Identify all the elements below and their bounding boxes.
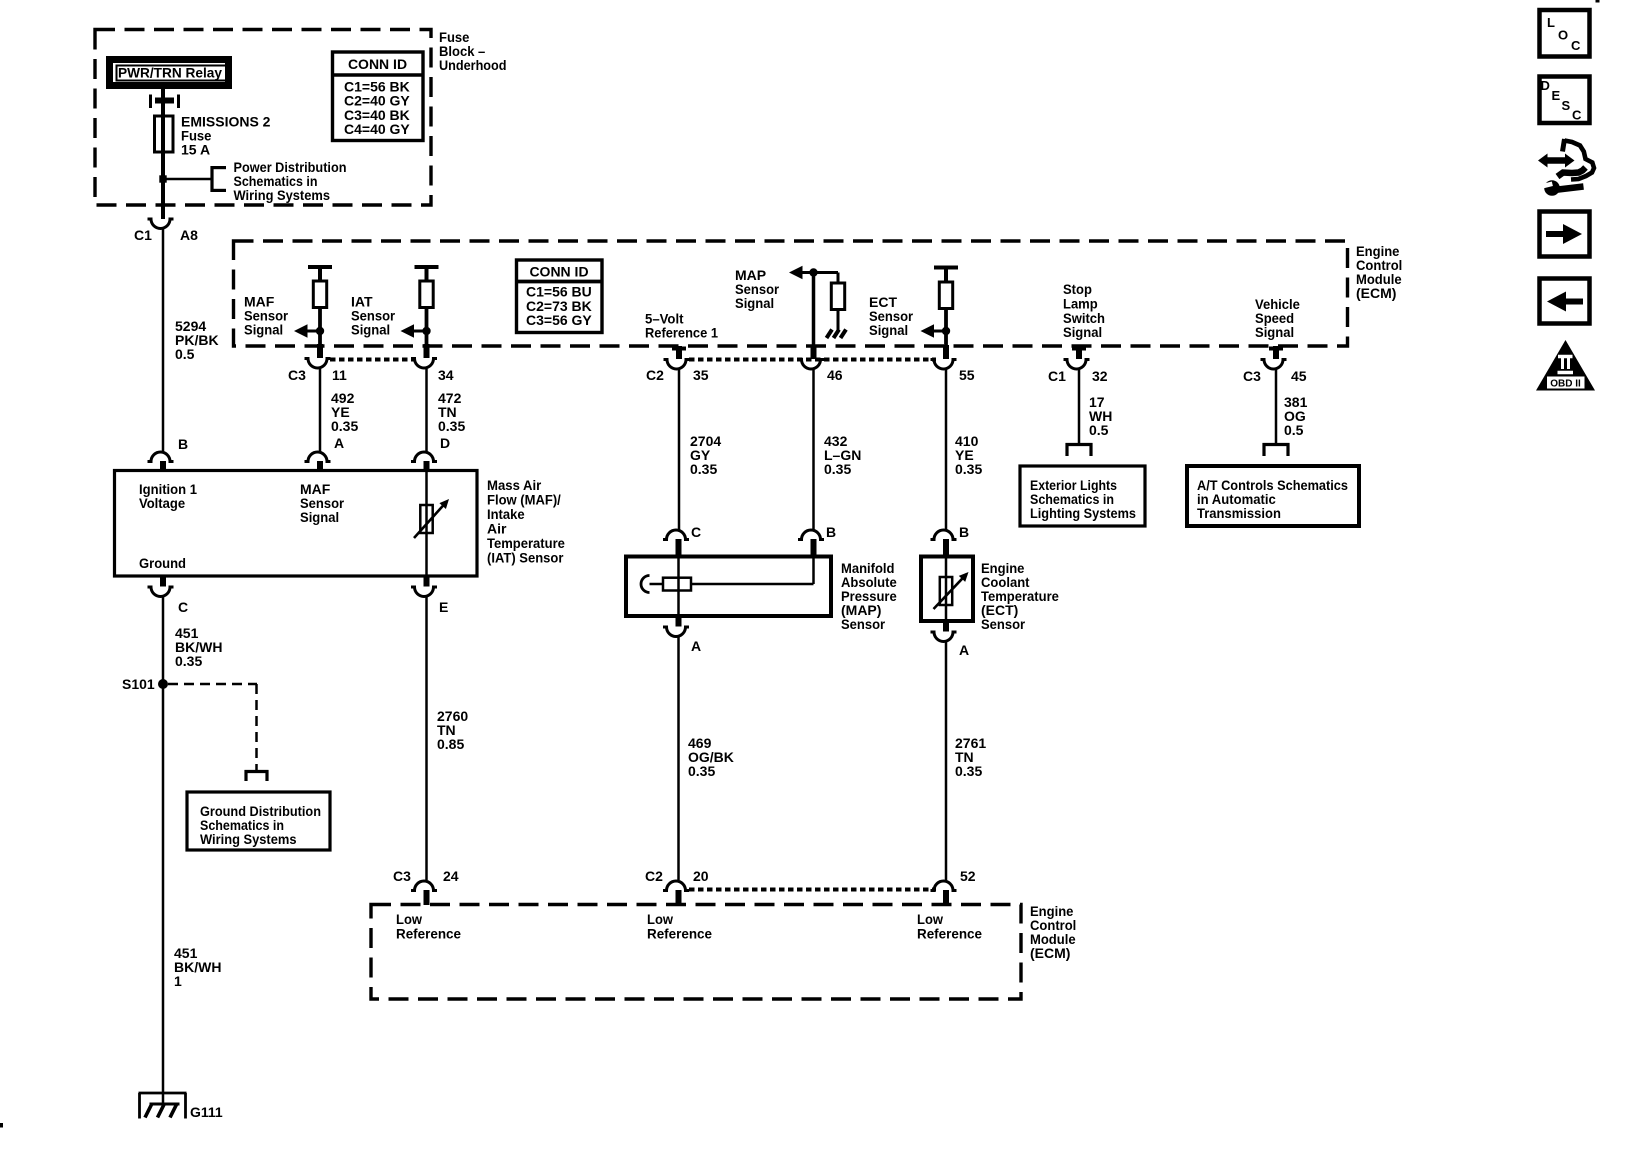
pin stub 46	[811, 345, 817, 359]
wire 17 WH 0.5	[1078, 369, 1081, 443]
svg-text:Signal: Signal	[1063, 324, 1102, 340]
svg-text:Signal: Signal	[300, 509, 339, 525]
wire	[318, 307, 322, 345]
CONN ID table fuse block	[333, 52, 424, 141]
connector C1 pin A8	[148, 219, 174, 229]
off-page bracket to exterior lights	[1066, 443, 1093, 446]
ECM top dashed box	[234, 241, 1348, 346]
svg-text:Sensor: Sensor	[981, 616, 1026, 632]
svg-text:A8: A8	[180, 227, 198, 243]
fuse F1 EMISSIONS 2 15A	[161, 116, 165, 152]
off-page bracket to A/T controls	[1263, 443, 1290, 446]
junction	[942, 327, 950, 335]
wire 451 BK/WH 0.35	[162, 596, 165, 684]
svg-text:11: 11	[332, 367, 347, 383]
MAP transducer symbol	[641, 576, 650, 593]
svg-text:1: 1	[174, 973, 182, 989]
arrow MAP sensor signal	[789, 266, 803, 279]
junction	[422, 327, 430, 335]
IAT thermistor (variable resistor)	[420, 505, 432, 533]
svg-text:0.35: 0.35	[955, 461, 982, 477]
fuse clip	[149, 95, 152, 109]
pin stub C3-11	[317, 344, 323, 358]
svg-text:Signal: Signal	[869, 322, 908, 338]
svg-text:0.35: 0.35	[175, 653, 202, 669]
connector C3 pin 34	[411, 359, 437, 369]
pin stub 55	[943, 345, 949, 359]
wire 472 TN 0.35	[425, 368, 428, 452]
svg-text:A: A	[959, 642, 969, 658]
svg-text:(IAT) Sensor: (IAT) Sensor	[487, 550, 564, 566]
svg-text:0.35: 0.35	[438, 418, 465, 434]
wire fuse down through fuse block border	[161, 152, 165, 219]
svg-text:S: S	[1562, 98, 1571, 113]
svg-text:D: D	[440, 435, 450, 451]
resistor MAP pull-up to ground	[837, 273, 840, 284]
svg-text:0.35: 0.35	[688, 763, 715, 779]
svg-text:32: 32	[1092, 368, 1108, 384]
connector C3 pin 11	[305, 359, 331, 369]
connector C2 pin 35	[664, 360, 690, 370]
A/T controls schematics box	[1187, 466, 1359, 526]
connector dashed link C2 pins 20-52	[689, 888, 936, 892]
wire 451 BK/WH 1	[162, 684, 165, 1104]
connector pin B MAP sensor	[798, 530, 824, 540]
CONN ID table ECM	[517, 260, 603, 333]
svg-text:Wiring Systems: Wiring Systems	[234, 187, 331, 203]
pin terminal vehicle speed	[1269, 347, 1283, 351]
arrow IAT sensor signal	[401, 324, 415, 337]
svg-text:B: B	[178, 436, 188, 452]
svg-text:Reference 1: Reference 1	[645, 325, 718, 341]
svg-text:OBD II: OBD II	[1550, 379, 1581, 390]
page mark top right	[1596, 0, 1599, 2]
svg-text:C2: C2	[646, 367, 664, 383]
svg-text:Reference: Reference	[396, 926, 461, 942]
connector C3 pin 24	[411, 881, 437, 891]
svg-text:C3: C3	[393, 868, 411, 884]
pin terminal stop lamp	[1072, 347, 1086, 351]
PWR/TRN Relay box	[110, 60, 229, 86]
svg-text:45: 45	[1291, 368, 1307, 384]
ECT thermistor (variable resistor)	[940, 577, 952, 605]
svg-text:A: A	[334, 435, 344, 451]
resistor ECT pull-up	[939, 282, 952, 309]
wire through MAP sensor	[677, 556, 680, 616]
wire	[425, 307, 429, 345]
svg-text:Signal: Signal	[244, 322, 283, 338]
IAT sensor signal terminal in ECM	[415, 265, 439, 269]
wire 410 YE 0.35	[945, 369, 948, 531]
ECT sensor signal terminal in ECM	[934, 266, 958, 270]
svg-text:55: 55	[959, 367, 975, 383]
svg-text:Ground: Ground	[139, 555, 186, 571]
svg-text:Lighting Systems: Lighting Systems	[1030, 505, 1136, 521]
svg-text:C4=40 GY: C4=40 GY	[344, 121, 410, 137]
svg-text:PWR/TRN Relay: PWR/TRN Relay	[118, 65, 222, 81]
svg-text:E: E	[439, 599, 448, 615]
svg-text:CONN ID: CONN ID	[529, 264, 588, 280]
ECM bottom dashed box	[371, 905, 1021, 1000]
ground in ECM	[827, 330, 833, 339]
OBD II icon	[1536, 340, 1595, 391]
connector pin D IAT sensor	[411, 452, 437, 462]
connector dashed link C3 pins 11-34	[330, 358, 416, 362]
svg-text:Signal: Signal	[735, 295, 774, 311]
connector pin E IAT low reference	[424, 576, 430, 587]
wire branch to power distribution	[163, 178, 212, 181]
MAF/IAT sensor box	[115, 471, 478, 577]
svg-text:Signal: Signal	[1255, 324, 1294, 340]
IAT wire through sensor	[425, 471, 428, 576]
wire relay to fuse	[161, 89, 165, 116]
svg-text:0.35: 0.35	[955, 763, 982, 779]
wire 2760 TN 0.85	[425, 596, 428, 880]
LOC icon box	[1540, 10, 1590, 57]
connector C3 pin 45	[1261, 360, 1287, 370]
wire 469 OG/BK 0.35	[677, 636, 680, 880]
svg-text:Underhood: Underhood	[439, 57, 507, 73]
wire MAP signal vertical	[812, 273, 816, 347]
connector C2 pin 20	[663, 881, 689, 891]
DESC icon box	[1540, 77, 1590, 124]
svg-text:CONN ID: CONN ID	[348, 56, 407, 72]
wire through ECT sensor	[945, 556, 948, 621]
connector pin 52	[931, 881, 957, 891]
svg-text:0.85: 0.85	[437, 736, 464, 752]
svg-text:0.5: 0.5	[1284, 422, 1304, 438]
page mark bottom left	[0, 1124, 3, 1128]
svg-text:C2: C2	[645, 868, 663, 884]
resistor MAF pull-up	[313, 281, 326, 308]
svg-text:L: L	[1547, 15, 1555, 30]
svg-text:C: C	[178, 599, 188, 615]
svg-text:24: 24	[443, 868, 459, 884]
svg-text:C3: C3	[288, 367, 306, 383]
svg-text:0.5: 0.5	[1089, 422, 1109, 438]
connector pin 55	[931, 360, 957, 370]
svg-text:52: 52	[960, 868, 976, 884]
wire 381 OG 0.5	[1275, 369, 1278, 443]
svg-text:Signal: Signal	[351, 322, 390, 338]
connector pin C MAP sensor	[663, 530, 689, 540]
wire 5294 PK/BK 0.5	[162, 228, 165, 451]
svg-text:Reference: Reference	[647, 926, 712, 942]
wire 2704 GY 0.35	[678, 369, 681, 531]
fuse block underhood dashed box	[95, 30, 431, 206]
ground G111	[139, 1092, 187, 1095]
svg-text:34: 34	[438, 367, 454, 383]
svg-text:46: 46	[827, 367, 843, 383]
connector pin B MAF sensor	[148, 452, 174, 462]
ECT sensor box	[921, 557, 973, 622]
splice S101	[158, 679, 168, 689]
svg-text:C: C	[1571, 38, 1581, 53]
svg-text:20: 20	[693, 868, 709, 884]
forward arrow icon box	[1540, 212, 1590, 257]
svg-text:C1: C1	[1048, 368, 1066, 384]
connector pin A MAF sensor	[305, 452, 331, 462]
svg-text:(ECM): (ECM)	[1030, 945, 1070, 961]
connector pin B ECT sensor	[931, 530, 957, 540]
arrow ECT sensor signal	[921, 324, 935, 337]
MAP sensor box	[626, 557, 831, 617]
svg-text:C1: C1	[134, 227, 152, 243]
wire 432 L-GN 0.35	[812, 369, 815, 531]
svg-text:(ECM): (ECM)	[1356, 285, 1396, 301]
arrow MAF sensor signal	[294, 324, 308, 337]
svg-text:15 A: 15 A	[181, 142, 210, 158]
svg-text:Transmission: Transmission	[1197, 505, 1281, 521]
svg-text:0.5: 0.5	[175, 346, 195, 362]
svg-text:0.35: 0.35	[690, 461, 717, 477]
connector dashed link C2 pins 35-46-55	[689, 358, 936, 362]
svg-text:B: B	[959, 524, 969, 540]
ground distribution schematics box	[187, 792, 330, 850]
svg-text:Sensor: Sensor	[841, 616, 886, 632]
power distribution bracket	[210, 166, 213, 192]
svg-text:S101: S101	[122, 676, 155, 692]
wire 2761 TN 0.35	[945, 641, 948, 880]
svg-text:O: O	[1558, 28, 1568, 43]
resistor IAT pull-up	[420, 281, 433, 308]
connector pin A MAP sensor	[676, 616, 682, 627]
svg-text:B: B	[826, 524, 836, 540]
connector pin A ECT sensor	[943, 621, 949, 632]
svg-text:Reference: Reference	[917, 926, 982, 942]
off-page bracket ground distribution	[245, 770, 269, 773]
back arrow icon box	[1540, 279, 1590, 324]
dashed branch to ground distribution	[168, 683, 257, 686]
svg-text:0.35: 0.35	[331, 418, 358, 434]
svg-text:C3=56 GY: C3=56 GY	[526, 312, 592, 328]
connector pin C MAF sensor ground	[160, 576, 166, 587]
pin terminal 5-volt reference	[672, 347, 686, 351]
connector pin 46	[798, 360, 824, 370]
svg-text:E: E	[1552, 88, 1561, 103]
wire 492 YE 0.35	[319, 368, 322, 452]
junction	[809, 268, 817, 276]
svg-text:35: 35	[693, 367, 709, 383]
svg-text:C3: C3	[1243, 368, 1261, 384]
junction node below fuse	[160, 176, 166, 182]
MAF sensor signal terminal in ECM	[308, 265, 332, 269]
svg-text:Wiring Systems: Wiring Systems	[200, 831, 297, 847]
pin stub C3-34	[424, 344, 430, 358]
svg-text:D: D	[1541, 78, 1550, 93]
wire	[944, 308, 948, 345]
svg-text:C: C	[1572, 108, 1582, 123]
svg-text:A: A	[691, 638, 701, 654]
svg-text:G111: G111	[190, 1104, 223, 1120]
diagnostic icon (arrows and wrench)	[1538, 139, 1594, 196]
svg-text:C: C	[691, 524, 701, 540]
exterior lights schematics box	[1020, 466, 1145, 526]
svg-text:Voltage: Voltage	[139, 495, 185, 511]
junction	[316, 327, 324, 335]
svg-text:0.35: 0.35	[824, 461, 851, 477]
connector C1 pin 32	[1064, 360, 1090, 370]
